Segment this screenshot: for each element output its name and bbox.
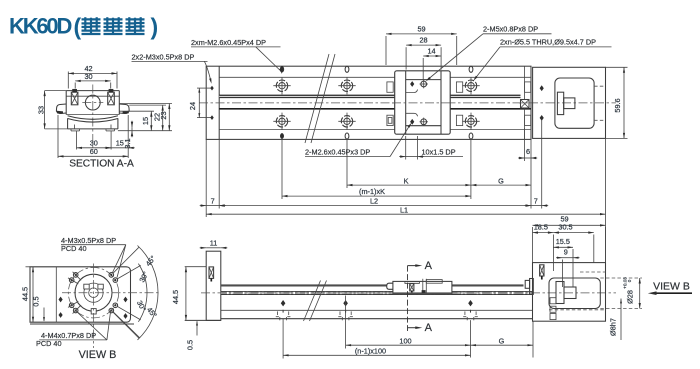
svg-text:PCD 40: PCD 40 — [61, 244, 87, 253]
svg-text:11: 11 — [210, 238, 218, 247]
section A-A carriage body outline — [66, 91, 119, 115]
side view T-slot nuts — [276, 300, 478, 320]
title CJK glyph 2 — [104, 17, 123, 34]
side view section line A-A — [408, 264, 423, 331]
svg-text:15: 15 — [141, 117, 150, 125]
end view motor outline rounded — [549, 278, 600, 309]
side view carriage — [387, 279, 452, 295]
viewB plate outline — [30, 267, 131, 322]
plan dim L1 — [206, 205, 605, 215]
plan bearing symbol — [521, 100, 530, 109]
plan rail hole 1 top — [273, 77, 290, 94]
end dim 59 — [533, 215, 606, 263]
svg-text:30.5: 30.5 — [558, 222, 572, 231]
svg-text:15.5: 15.5 — [556, 237, 570, 246]
side view centerline — [201, 292, 616, 294]
section dim 22 — [129, 105, 166, 131]
side view label A bottom — [425, 322, 433, 334]
svg-text:14: 14 — [427, 47, 435, 56]
side view label A top — [425, 260, 433, 272]
end view left edge tabs — [550, 298, 556, 320]
side view rail body — [185, 310, 533, 320]
plan dim 59.6 — [606, 67, 628, 138]
svg-text:0: 0 — [627, 279, 632, 282]
plan rail hole 3 bottom — [462, 113, 479, 130]
plan view rail inner lines — [219, 77, 531, 129]
side dim 11 — [200, 238, 228, 249]
viewB angle arcs — [138, 246, 159, 340]
svg-text:L2: L2 — [370, 197, 378, 206]
svg-text:SECTION A-A: SECTION A-A — [69, 159, 134, 170]
svg-text:VIEW B: VIEW B — [653, 281, 690, 293]
section dim 15 right — [119, 111, 154, 131]
callout PCD 40 top — [61, 244, 87, 253]
title CJK glyph 1 — [82, 17, 101, 34]
svg-text:A: A — [425, 260, 433, 272]
section A-A rail base — [68, 118, 118, 131]
callout 4-M3x0.5Px8 DP — [61, 236, 126, 278]
plan extension lines below — [206, 120, 605, 263]
callout 2-M2.6x0.45Px3 DP — [305, 123, 412, 157]
svg-text:2x2-M3x0.5Px8 DP: 2x2-M3x0.5Px8 DP — [132, 53, 195, 62]
callout 2-M5x0.8Px8 DP — [426, 25, 552, 82]
svg-text:9: 9 — [564, 247, 568, 256]
plan dim 28 — [406, 36, 441, 70]
svg-text:2-M5x0.8Px8 DP: 2-M5x0.8Px8 DP — [483, 25, 538, 34]
svg-text:A: A — [425, 322, 433, 334]
plan motor body rounded — [555, 78, 606, 128]
end dim diam8h7 — [609, 299, 623, 341]
svg-text:59: 59 — [417, 24, 425, 33]
plan view centerline — [199, 102, 616, 104]
svg-text:Ø8h7: Ø8h7 — [609, 318, 618, 336]
callout 2xn-diam5.5 THRU — [473, 38, 611, 81]
plan set screw marks bottom edge — [280, 133, 473, 139]
side dim 0.5 — [186, 321, 198, 350]
side view motor end block — [206, 251, 221, 320]
viewB bolt holes — [68, 247, 141, 338]
plan carriage block — [395, 71, 451, 134]
plan set screw marks top edge — [280, 66, 473, 72]
end dim 9 — [556, 247, 580, 287]
side dim (n-1)x100 — [283, 347, 470, 357]
plan view rail outline — [206, 66, 531, 139]
svg-text:7: 7 — [211, 197, 215, 206]
svg-text:6: 6 — [526, 147, 530, 156]
svg-text:): ) — [151, 14, 159, 40]
viewB centerlines — [62, 264, 160, 349]
svg-text:3.1: 3.1 — [123, 138, 132, 148]
svg-text:VIEW B: VIEW B — [79, 349, 117, 361]
svg-text:30: 30 — [84, 72, 92, 81]
viewB angle labels — [135, 254, 159, 320]
section dim 60 — [58, 115, 128, 158]
section A-A label — [69, 159, 134, 170]
svg-text:59.6: 59.6 — [613, 98, 622, 112]
svg-text:KK60D: KK60D — [9, 14, 71, 39]
section A-A right screw M3 — [108, 89, 115, 105]
plan motor housing block — [533, 67, 606, 138]
svg-text:(n-1)x100: (n-1)x100 — [355, 347, 386, 356]
side view bottom extension lines — [283, 296, 533, 359]
plan dim L2 — [219, 197, 531, 207]
plan view ball screw band — [219, 95, 531, 109]
viewB label — [79, 349, 117, 361]
svg-text:33: 33 — [36, 106, 45, 114]
section A-A central bore — [82, 95, 103, 110]
plan dim 59 — [386, 24, 457, 65]
viewB boss circle — [75, 274, 112, 311]
svg-text:PCD 40: PCD 40 — [36, 339, 62, 348]
side view break lines — [304, 281, 327, 322]
viewB direction label — [653, 281, 690, 293]
svg-text:(m-1)xK: (m-1)xK — [359, 187, 385, 196]
viewB diamonds — [59, 297, 128, 319]
svg-text:K: K — [404, 176, 409, 185]
svg-text:45°: 45° — [144, 254, 158, 268]
plan view centerline over carriage — [392, 102, 453, 104]
end view motor hidden lines — [549, 272, 606, 310]
svg-text:23: 23 — [159, 111, 168, 119]
plan dim G — [471, 176, 531, 186]
svg-text:L1: L1 — [400, 205, 408, 214]
end view block screw — [540, 265, 544, 280]
svg-text:G: G — [499, 336, 505, 345]
viewB dim 0.5 — [31, 296, 45, 321]
plan motor shaft — [557, 92, 575, 114]
svg-text:Ø28: Ø28 — [625, 290, 634, 304]
end dim 30.5 — [553, 222, 593, 262]
section dim 30 top — [75, 72, 111, 89]
svg-text:2xm-M2.6x0.45Px4 DP: 2xm-M2.6x0.45Px4 DP — [191, 38, 266, 47]
viewB PCD circle — [68, 268, 118, 318]
svg-text:44.5: 44.5 — [20, 287, 29, 301]
svg-text:30°: 30° — [137, 270, 150, 284]
plan view centerline over bearing — [519, 102, 531, 104]
plan rail end tabs — [525, 66, 531, 139]
callout 10x1.5 DP — [399, 136, 463, 160]
plan rail hole 1 bottom — [273, 113, 290, 130]
viewB dim 44.5 — [20, 267, 34, 322]
plan carriage holes M5 — [420, 80, 429, 126]
section dim 23 — [118, 104, 172, 131]
side dim G — [471, 336, 534, 346]
plan rail hole 3 top — [462, 77, 479, 94]
end dim diam28 — [600, 277, 642, 309]
callout 2xm-M2.6x0.45Px4 DP — [191, 38, 282, 74]
viewB coupling profile — [84, 283, 104, 314]
section dim 3.1 — [123, 121, 133, 149]
plan dim 7 left — [200, 197, 226, 207]
svg-text:18.5: 18.5 — [534, 222, 548, 231]
svg-text:24: 24 — [188, 102, 197, 110]
plan rail tabs beside carriage — [387, 82, 463, 126]
section A-A vertical centerline — [92, 85, 94, 150]
plan dim K — [347, 176, 471, 186]
svg-text:(: ( — [74, 14, 82, 40]
section dim 30 bottom — [77, 131, 112, 150]
svg-text:7: 7 — [534, 197, 538, 206]
plan view break lines — [305, 54, 335, 143]
end view housing block — [533, 263, 606, 322]
svg-text:G: G — [498, 176, 504, 185]
plan dim 24 — [188, 86, 214, 120]
plan dim (m-1)xK — [282, 187, 471, 197]
side dim 44.5 — [171, 267, 206, 321]
end view shaft — [556, 282, 576, 304]
viewB direction arrow — [648, 291, 692, 295]
callout PCD 40 bottom — [36, 339, 62, 348]
section A-A right wing — [119, 104, 129, 114]
end dim 18.5 — [533, 222, 554, 271]
section dim 15 bottom — [105, 131, 135, 150]
plan rail hole 2 top — [338, 77, 355, 94]
plan carriage marker diamonds — [410, 81, 414, 125]
svg-text:100: 100 — [399, 336, 411, 345]
title CJK glyph 3 — [126, 17, 145, 34]
svg-text:44.5: 44.5 — [171, 290, 180, 304]
svg-text:28: 28 — [419, 36, 427, 45]
section A-A left screw M3 — [71, 89, 78, 105]
plan rail hole 2 bottom — [338, 113, 355, 130]
section A-A left wing — [56, 104, 66, 114]
svg-text:2xn-Ø5.5 THRU,Ø9.5x4.7 DP: 2xn-Ø5.5 THRU,Ø9.5x4.7 DP — [500, 38, 596, 47]
plan dim 14 — [423, 47, 441, 80]
section dim 42 — [68, 64, 117, 88]
svg-text:60: 60 — [90, 147, 98, 156]
plan dim 6 — [518, 128, 537, 161]
side view ball screw band — [221, 284, 524, 286]
side view guide rail band — [221, 291, 533, 294]
section A-A lower carriage profile — [66, 115, 119, 123]
callout 4-M4x0.7Px8 DP — [39, 310, 140, 341]
viewB mounting surface line — [30, 323, 134, 325]
svg-text:10x1.5 DP: 10x1.5 DP — [422, 148, 456, 157]
side view block screw — [209, 267, 214, 282]
side dim 100 — [346, 336, 471, 346]
svg-text:0.5: 0.5 — [186, 340, 195, 350]
plan motor block diamonds — [540, 85, 544, 121]
plan dim 7 right — [525, 197, 549, 207]
end view shaft coupling from rail — [525, 279, 533, 295]
end dim 15.5 — [553, 237, 573, 287]
section dim 33 — [36, 91, 67, 129]
callout 2x2-M3x0.5Px8 DP — [132, 53, 212, 84]
title KK60D — [9, 14, 158, 40]
svg-text:2-M2.6x0.45Px3 DP: 2-M2.6x0.45Px3 DP — [305, 148, 370, 157]
svg-text:0.5: 0.5 — [31, 296, 40, 306]
